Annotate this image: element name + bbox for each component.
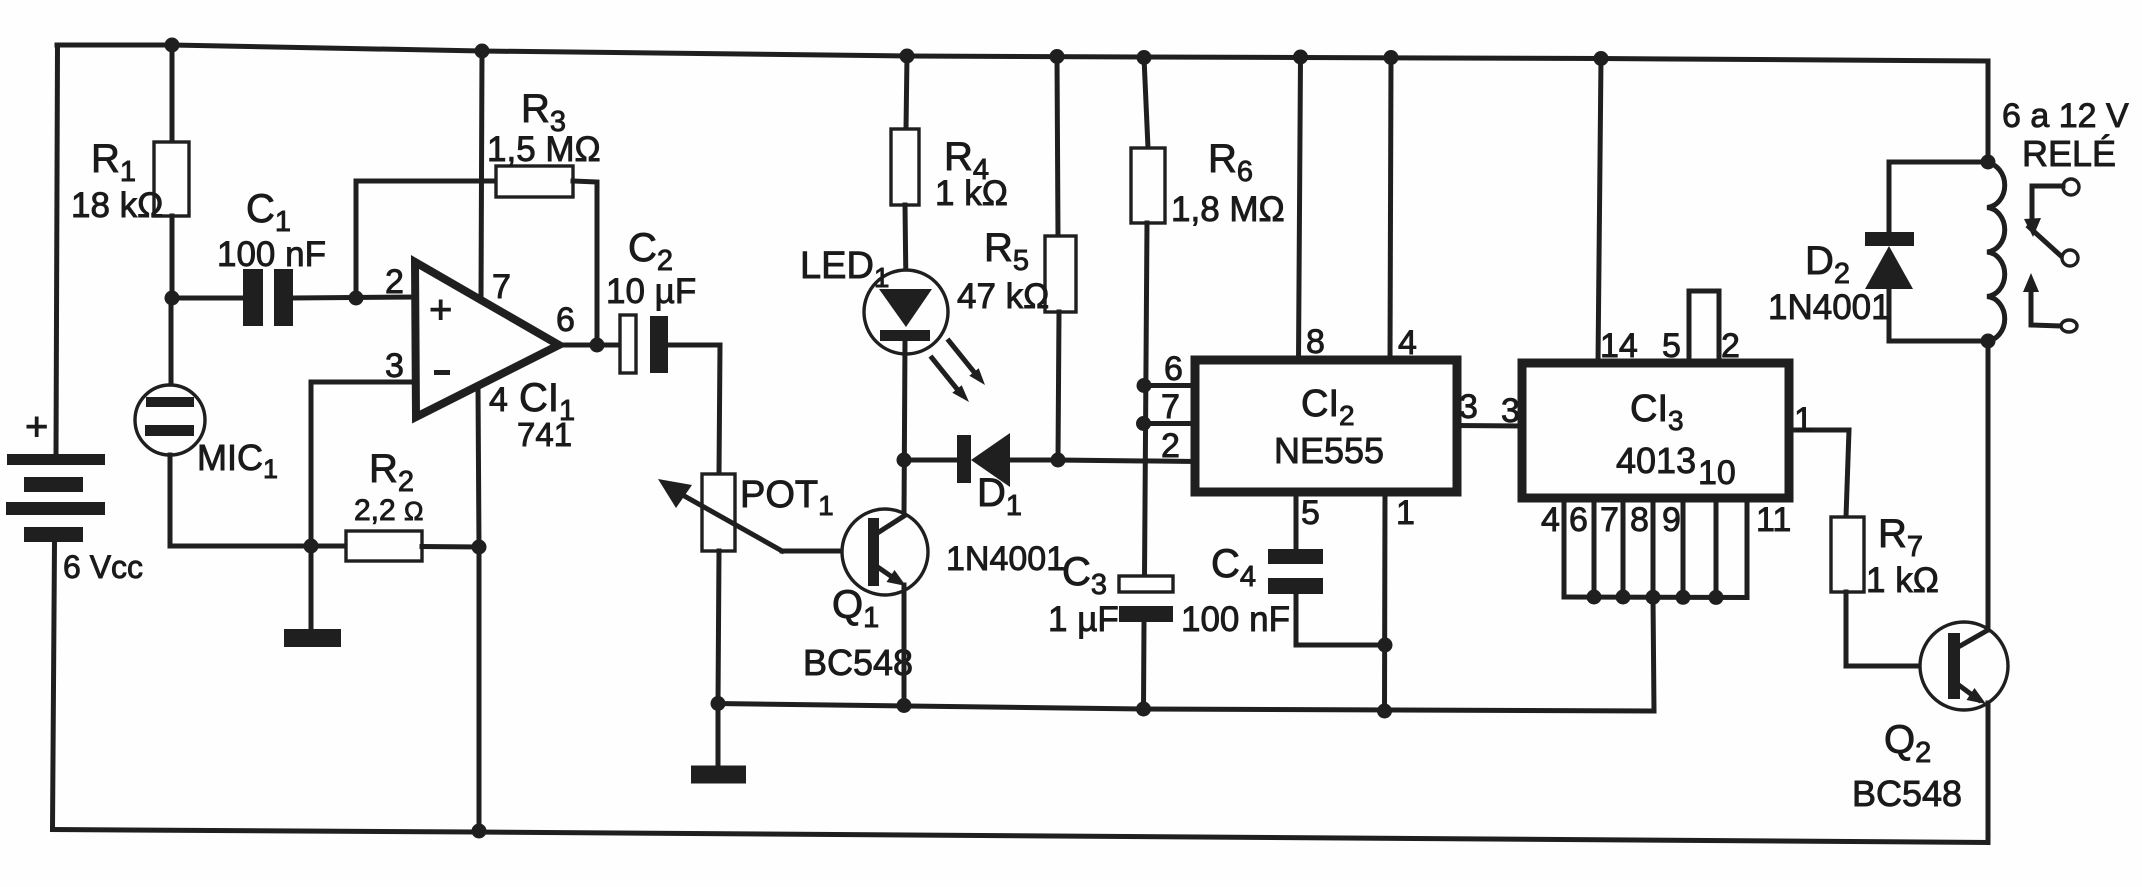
wire POT1 bottom xyxy=(718,551,719,704)
wire NE555 pin 6 stub xyxy=(1144,383,1195,388)
wire top rail to relay xyxy=(1986,61,1991,162)
svg-text:C3: C3 xyxy=(1062,550,1107,601)
svg-text:2,2 Ω: 2,2 Ω xyxy=(354,494,423,527)
svg-text:C4: C4 xyxy=(1211,542,1256,593)
node pin14 rail xyxy=(1594,51,1609,66)
svg-text:3: 3 xyxy=(1501,392,1520,430)
wire R2 left xyxy=(311,544,346,549)
node bus pin6 xyxy=(1587,590,1602,605)
wire C1 left xyxy=(172,296,243,301)
battery B1 6 Vcc xyxy=(6,454,105,542)
svg-text:6: 6 xyxy=(556,301,575,339)
svg-text:4: 4 xyxy=(489,381,508,419)
svg-text:5: 5 xyxy=(1301,494,1320,532)
svg-text:10: 10 xyxy=(1698,454,1736,492)
node pin7 rail xyxy=(475,44,490,59)
svg-text:4: 4 xyxy=(1541,501,1560,539)
svg-text:6 a 12 V: 6 a 12 V xyxy=(2002,97,2129,135)
svg-text:7: 7 xyxy=(1600,501,1619,539)
wire feedback right down to output xyxy=(573,181,597,345)
wire NE555 pin3 to CI3 xyxy=(1457,423,1522,429)
svg-text:11: 11 xyxy=(1756,501,1791,539)
svg-text:6: 6 xyxy=(1164,350,1183,388)
svg-text:8: 8 xyxy=(1630,501,1649,539)
wire op-amp output xyxy=(559,343,620,348)
diode D2 xyxy=(1865,232,1914,289)
node Q1 emitter mid bus xyxy=(897,698,912,713)
svg-text:47 kΩ: 47 kΩ xyxy=(957,277,1049,316)
node R4 rail xyxy=(900,49,915,64)
svg-text:18 kΩ: 18 kΩ xyxy=(71,186,163,225)
wire battery to bottom rail xyxy=(53,542,55,830)
node POT1 bottom junction xyxy=(711,696,726,711)
IC CI3 4013 box xyxy=(1522,363,1789,498)
capacitor C3 xyxy=(1119,576,1173,622)
svg-text:1 kΩ: 1 kΩ xyxy=(1866,561,1939,600)
node pin6 junction xyxy=(1137,378,1152,393)
svg-text:7: 7 xyxy=(1161,388,1180,426)
svg-text:2: 2 xyxy=(385,263,404,301)
node MIC/R2/ground junction xyxy=(304,539,319,554)
node D1 left junction xyxy=(897,453,912,468)
svg-text:3: 3 xyxy=(1459,388,1478,426)
resistor R4 xyxy=(891,129,919,205)
wire CI3 pin 7 stub xyxy=(1621,498,1626,597)
wire NE555 pin 1 down xyxy=(1382,492,1388,711)
wire CI3 pin 11 stub xyxy=(1745,498,1750,598)
node relay top xyxy=(1981,155,1996,170)
wire Q2 collector to relay xyxy=(1986,341,1991,630)
ground symbol left xyxy=(284,629,341,647)
svg-text:1N4001: 1N4001 xyxy=(1768,288,1891,327)
IC CI2 NE555 box xyxy=(1195,360,1457,492)
svg-text:BC548: BC548 xyxy=(803,642,913,683)
wire CI3 pin 14 supply xyxy=(1598,59,1601,364)
wire R4 to LED1 xyxy=(905,205,906,290)
svg-text:R2: R2 xyxy=(369,447,414,498)
relay coil xyxy=(1987,163,2005,341)
wire MIC top xyxy=(169,298,174,386)
wire Q1 emitter down xyxy=(902,585,907,706)
svg-text:2: 2 xyxy=(1721,327,1740,365)
wire NE555 pin 5 xyxy=(1294,492,1299,549)
svg-text:100 nF: 100 nF xyxy=(217,235,326,274)
wire R4 top xyxy=(906,56,907,129)
node bus pin9 xyxy=(1676,590,1691,605)
wire CI3 pins 5-2 jumper xyxy=(1689,291,1719,363)
LED LED1 xyxy=(864,270,948,354)
wire left rail to battery xyxy=(56,45,58,455)
wire R5 top xyxy=(1057,57,1058,237)
node pin1 mid bus xyxy=(1377,704,1392,719)
wire op-amp pin 4 down xyxy=(478,386,479,547)
svg-text:1 µF: 1 µF xyxy=(1048,600,1119,639)
svg-text:4: 4 xyxy=(1398,324,1417,362)
POT1 wiper diagonal xyxy=(672,489,782,551)
relay contact NO top xyxy=(2024,179,2079,237)
POT1 wiper arrowhead xyxy=(658,479,692,508)
svg-text:7: 7 xyxy=(492,268,511,306)
wire R1 bottom xyxy=(170,216,175,298)
LED light arrow 2 xyxy=(932,358,969,402)
resistor R7 xyxy=(1831,517,1864,592)
svg-text:14: 14 xyxy=(1600,327,1638,365)
wire LED1 to Q1 collector xyxy=(904,341,905,516)
potentiometer POT1 xyxy=(702,474,735,551)
wire CI3 pin 8 stub xyxy=(1651,498,1656,597)
wire NE555 pin 7 stub xyxy=(1144,421,1196,426)
node pin4 bottom rail xyxy=(472,824,487,839)
wire CI3 pin 10 stub xyxy=(1714,498,1719,597)
wire CI3 pin 6 stub xyxy=(1592,498,1597,597)
svg-text:1: 1 xyxy=(1396,494,1415,532)
svg-text:RELÉ: RELÉ xyxy=(2022,133,2116,174)
resistor R5 xyxy=(1045,236,1076,312)
wire op-amp pin 3 xyxy=(311,382,418,546)
svg-text:D2: D2 xyxy=(1805,239,1850,290)
wire CI3 pin 1 to R7 xyxy=(1789,430,1849,517)
svg-text:10 µF: 10 µF xyxy=(606,272,696,311)
svg-text:9: 9 xyxy=(1662,501,1681,539)
resistor R2 xyxy=(346,531,422,561)
node relay bottom xyxy=(1981,334,1996,349)
node pin7 junction xyxy=(1136,416,1151,431)
svg-text:1 kΩ: 1 kΩ xyxy=(935,174,1008,213)
wire C1 right to op-amp pin 2 xyxy=(293,297,418,298)
wire C2 to POT1 xyxy=(668,345,720,474)
node pin4 rail xyxy=(1384,50,1399,65)
svg-text:741: 741 xyxy=(517,416,572,453)
label minus input xyxy=(434,370,450,375)
resistor R6 xyxy=(1131,148,1165,223)
svg-text:BC548: BC548 xyxy=(1852,773,1962,814)
wire C3 bottom xyxy=(1141,622,1147,709)
wire wiper to Q1 base xyxy=(782,549,868,554)
svg-text:C1: C1 xyxy=(246,187,291,238)
svg-text:3: 3 xyxy=(385,347,404,385)
node bus pin7 xyxy=(1616,590,1631,605)
wire top supply rail xyxy=(57,45,1988,61)
wire R6 top xyxy=(1144,58,1148,149)
microphone MIC1 xyxy=(135,385,205,455)
svg-text:C2: C2 xyxy=(628,226,673,277)
svg-text:1: 1 xyxy=(1794,401,1813,439)
svg-text:6: 6 xyxy=(1569,501,1588,539)
svg-text:100 nF: 100 nF xyxy=(1181,600,1290,639)
capacitor C4 xyxy=(1268,549,1323,594)
ground symbol middle xyxy=(691,766,746,784)
wire R6 bottom to C3 xyxy=(1145,223,1148,576)
svg-text:+: + xyxy=(25,405,48,449)
node R2/pin4 junction xyxy=(472,540,487,555)
transistor Q1 xyxy=(842,509,928,595)
resistor R3 xyxy=(496,166,573,197)
diode D1 xyxy=(957,433,1010,487)
node C3 mid bus xyxy=(1136,702,1151,717)
svg-text:D1: D1 xyxy=(977,471,1022,522)
wire D1 right xyxy=(1010,458,1058,463)
wire pin4 to bottom rail xyxy=(477,547,482,831)
node bus pin8 xyxy=(1646,590,1661,605)
node R6 rail xyxy=(1137,50,1152,65)
relay armature xyxy=(2029,227,2078,266)
svg-text:1,8 MΩ: 1,8 MΩ xyxy=(1171,190,1285,229)
capacitor C1 xyxy=(243,269,293,326)
wire D2 bottom link xyxy=(1889,339,1988,344)
node feedback/pin2 junction xyxy=(349,291,364,306)
wire R2 right xyxy=(422,544,479,550)
svg-text:1,5 MΩ: 1,5 MΩ xyxy=(487,130,601,169)
svg-text:4013: 4013 xyxy=(1616,440,1696,481)
wire mid ground bus xyxy=(718,598,1654,712)
relay contact NC bottom xyxy=(2023,273,2077,332)
wire ground stem MIC/R2 xyxy=(309,546,314,629)
wire CI3 pin 4 stub xyxy=(1562,498,1567,597)
svg-text:LED1: LED1 xyxy=(800,245,890,293)
transistor Q2 xyxy=(1920,622,2008,710)
svg-text:R6: R6 xyxy=(1208,137,1253,188)
svg-text:6 Vcc: 6 Vcc xyxy=(63,549,143,585)
svg-text:8: 8 xyxy=(1306,323,1325,361)
wire bottom ground rail xyxy=(53,830,1989,843)
wire CI3 pin 9 stub xyxy=(1681,498,1686,597)
svg-text:+: + xyxy=(429,288,452,332)
svg-text:5: 5 xyxy=(1662,327,1681,365)
wire D2 cathode lead xyxy=(1887,162,1892,232)
svg-text:R7: R7 xyxy=(1878,512,1923,563)
node D1/R5 junction xyxy=(1051,453,1066,468)
wire feedback up and left xyxy=(356,181,496,298)
LED light arrow 1 xyxy=(949,341,985,385)
node R1/C1/MIC junction xyxy=(165,291,180,306)
wire NE555 pin 4 supply xyxy=(1390,58,1391,362)
op-amp CI1 triangle xyxy=(415,262,559,417)
node bus pin10 xyxy=(1709,590,1724,605)
node pin8 rail xyxy=(1293,50,1308,65)
wire R7 to Q2 base xyxy=(1846,592,1948,666)
svg-text:MIC1: MIC1 xyxy=(197,437,278,484)
svg-text:2: 2 xyxy=(1161,427,1180,465)
capacitor C2 xyxy=(620,315,668,373)
wire R1 top xyxy=(170,45,175,142)
node C4/pin1 junction xyxy=(1378,638,1393,653)
wire R5 bottom xyxy=(1058,312,1059,460)
wire CI3 ground bus xyxy=(1564,595,1747,601)
svg-text:Q2: Q2 xyxy=(1884,718,1931,769)
node R5 rail xyxy=(1050,49,1065,64)
wire Q2 emitter to bottom rail xyxy=(1986,703,1991,843)
wire to NE555 pin 2 xyxy=(1058,460,1195,462)
wire D2 anode lead xyxy=(1887,288,1892,341)
wire MIC bottom xyxy=(170,455,311,546)
resistor R1 xyxy=(154,142,189,216)
svg-text:NE555: NE555 xyxy=(1274,430,1384,471)
node R1 top rail xyxy=(165,38,180,53)
wire D2 top link xyxy=(1889,160,1988,165)
wire NE555 pin 8 supply xyxy=(1299,57,1301,361)
node output junction xyxy=(590,338,605,353)
wire D1 left xyxy=(904,458,957,463)
wire C4 bottom to pin1 xyxy=(1296,594,1385,645)
svg-text:POT1: POT1 xyxy=(740,474,834,521)
wire ground stem POT1 xyxy=(716,704,721,767)
svg-text:R5: R5 xyxy=(984,226,1029,277)
svg-text:R1: R1 xyxy=(91,137,136,188)
wire op-amp pin 7 supply xyxy=(481,51,482,301)
svg-text:1N4001: 1N4001 xyxy=(946,540,1065,578)
